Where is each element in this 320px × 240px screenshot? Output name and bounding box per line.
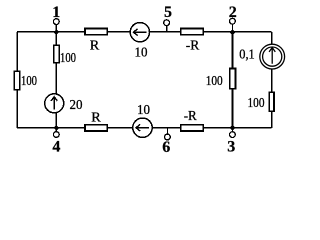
current source 10 (top) arrow [133, 29, 146, 36]
terminal circle node 3 [230, 132, 236, 138]
resistor R (bottom) body [85, 125, 107, 131]
terminal circle node 4 [53, 132, 59, 138]
wire branch node2 to node3 [231, 32, 233, 128]
terminal stub node 4 [55, 128, 57, 132]
svg-text:2: 2 [229, 4, 237, 21]
current source 10 (bottom) circle [133, 118, 152, 137]
resistor 100 (right branch) body [269, 92, 274, 111]
source 0,1 outer circle [260, 44, 285, 69]
wire left vertical branch [16, 32, 18, 128]
current source 10 (top) circle [130, 23, 149, 42]
source 0,1 inner circle [263, 47, 282, 66]
wire top horizontal node1-node2 rail [17, 31, 271, 33]
resistor R (top) body [85, 29, 107, 35]
svg-text:100: 100 [21, 74, 37, 89]
terminal stub node 3 [231, 128, 233, 132]
resistor -R (bottom) body [181, 125, 203, 131]
terminal stub node 6 [166, 128, 168, 134]
junction node 2 [230, 29, 236, 35]
terminal stub node 2 [231, 24, 233, 32]
svg-text:20: 20 [70, 98, 83, 113]
svg-text:4: 4 [52, 138, 60, 155]
resistor 100 (left branch) body [14, 71, 19, 89]
svg-text:5: 5 [164, 4, 172, 21]
terminal circle node 1 [53, 19, 59, 25]
junction node 3 [230, 125, 236, 131]
resistor 100 (node2 branch) body [230, 68, 236, 88]
source 0,1 arrow [269, 48, 275, 64]
wire bottom horizontal node4-node3 rail [17, 127, 271, 129]
junction node 4 [53, 125, 59, 131]
svg-text:1: 1 [52, 4, 60, 21]
current source 20 arrow [51, 97, 57, 110]
junction node 1 [53, 29, 59, 35]
svg-text:100: 100 [206, 74, 223, 89]
svg-text:6: 6 [162, 139, 170, 156]
terminal circle node 2 [230, 18, 236, 24]
svg-text:100: 100 [60, 51, 76, 66]
svg-text:100: 100 [248, 96, 265, 111]
terminal circle node 5 [164, 20, 170, 26]
terminal stub node 5 [166, 26, 168, 32]
svg-text:10: 10 [135, 46, 148, 61]
wire right vertical branch [271, 32, 273, 128]
svg-text:10: 10 [137, 103, 150, 118]
resistor 100 (node1 branch) body [54, 45, 59, 62]
svg-text:3: 3 [227, 139, 235, 156]
svg-text:R: R [90, 39, 100, 54]
current source 10 (bottom) arrow [136, 124, 149, 131]
terminal circle node 6 [165, 134, 171, 140]
terminal stub node 1 [55, 24, 57, 31]
svg-text:R: R [91, 111, 101, 126]
svg-text:-R: -R [186, 39, 200, 54]
current source 20 circle [45, 94, 64, 113]
svg-text:0,1: 0,1 [239, 48, 255, 63]
svg-text:-R: -R [184, 109, 198, 124]
resistor -R (top) body [181, 29, 203, 35]
wire branch node1 to node4 [55, 32, 57, 128]
